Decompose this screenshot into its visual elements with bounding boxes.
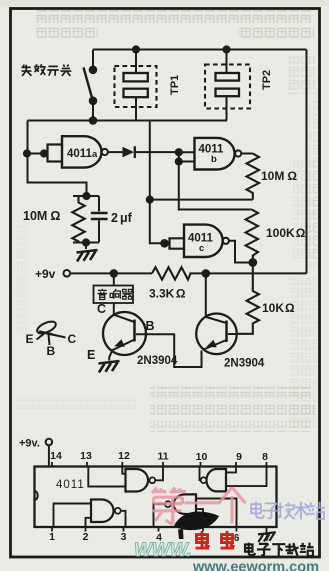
wire feedback vertical x150 [150, 121, 165, 244]
ground RC [77, 250, 98, 262]
transistor pinout sketch TO-92 [35, 319, 65, 345]
wire g3 in top pin9 [226, 467, 236, 473]
pin numbers top [50, 450, 268, 463]
gate G2 body [91, 500, 114, 523]
wire to gate a inputs [27, 153, 48, 155]
svg-text:10MΩ: 10MΩ [23, 209, 60, 223]
wire TP1 bottom lead [135, 97, 137, 120]
speaker annotation box [94, 286, 134, 304]
wire Q1 base to Q2 emitter [136, 334, 202, 367]
node RC top [83, 193, 89, 199]
node U1b input top [176, 149, 182, 155]
wire Q2 collector [205, 273, 207, 316]
wire g1 out pin11 [155, 467, 163, 481]
resistor R1 10M [247, 154, 259, 200]
svg-text:c: c [199, 243, 204, 254]
ground pin7 [258, 532, 276, 542]
wire top rail [93, 49, 307, 51]
gate U1c body [184, 225, 223, 257]
watermark black 电子下载站 [245, 543, 314, 557]
wire g3 out pin10 [200, 467, 201, 481]
gate U1b body [195, 138, 235, 170]
svg-text:C: C [97, 302, 106, 316]
watermark bug logo [174, 512, 219, 540]
svg-text:10: 10 [196, 451, 208, 463]
wire U1c out to node [229, 241, 250, 263]
label 音响器 speaker [97, 289, 132, 300]
watermark pink 第一个 [152, 487, 246, 524]
gate G4 body mirrored [173, 494, 196, 514]
node R2 bottom [249, 259, 256, 266]
svg-text:13: 13 [80, 450, 92, 462]
wire to ground [85, 243, 87, 250]
wire TP1 top lead [135, 50, 137, 74]
pin ticks top [52, 462, 267, 467]
svg-text:B: B [47, 344, 56, 358]
svg-text:3.3KΩ: 3.3KΩ [149, 287, 186, 301]
wire TP2 top lead [226, 50, 228, 74]
transistor Q2 [196, 314, 237, 355]
DIP package 4011 [35, 439, 277, 542]
gate U1a output bubble [102, 149, 108, 155]
wire g4 in bottom pin5 [196, 509, 203, 527]
wire g1 in bottom pin13 [88, 467, 125, 487]
gate U1a body [62, 136, 102, 167]
svg-text:7: 7 [265, 532, 271, 544]
svg-text:100KΩ: 100KΩ [266, 226, 306, 240]
svg-text:E: E [87, 348, 95, 362]
node RC bottom [83, 239, 89, 245]
ground Q1 emitter [99, 361, 120, 373]
node U1b input bottom [176, 158, 182, 164]
watermark lavender 电子技术站 [251, 502, 325, 520]
svg-text:E: E [26, 332, 34, 346]
IC body [35, 467, 277, 528]
svg-text:9: 9 [236, 451, 242, 463]
wire right bus [306, 50, 308, 274]
svg-text:2N3904: 2N3904 [224, 358, 265, 370]
resistor R2 100K [246, 210, 258, 263]
svg-text:TP1: TP1 [169, 75, 181, 95]
svg-text:3: 3 [121, 531, 127, 543]
wire horizontal y120 [28, 120, 228, 122]
capacitor C1 2uf [91, 196, 108, 243]
svg-text:10MΩ: 10MΩ [261, 169, 297, 183]
svg-text:C: C [68, 332, 77, 346]
wire g2 out pin3 [121, 511, 126, 527]
wire +9v rail [70, 272, 306, 274]
wire g2 in bottom pin2 [86, 518, 92, 527]
wire speaker drop [113, 273, 115, 314]
resistor R4 3.3K [152, 267, 191, 279]
svg-text:12: 12 [118, 450, 130, 462]
svg-text:2μf: 2μf [111, 211, 133, 225]
op-amp U1a gate inputs tie [48, 144, 63, 163]
label 失效开关 [22, 64, 72, 76]
svg-text:1: 1 [49, 531, 55, 543]
wire g4 in top pin6 [196, 499, 237, 528]
diode D1 [108, 146, 176, 158]
watermark red 虫虫 [196, 531, 235, 548]
wire TP2 bottom lead [226, 96, 228, 120]
svg-text:www.eeworm.com: www.eeworm.com [192, 560, 319, 571]
wire left bus to RC [28, 121, 87, 195]
transistor Q1 [103, 312, 146, 361]
node Q2 collector tap [203, 270, 210, 277]
node gate c input [161, 240, 168, 247]
switch S1 failure switch [84, 50, 97, 121]
resistor R5 10M timing [72, 196, 84, 243]
svg-text:TP2: TP2 [261, 70, 273, 90]
TP1 dashed enclosure [115, 66, 157, 107]
svg-text:WWW.: WWW. [134, 540, 192, 561]
wire g4 out pin4 [154, 504, 166, 527]
TP2 dashed enclosure [205, 65, 250, 109]
pin ticks bottom [52, 527, 267, 533]
wire pin14 lead [48, 445, 50, 466]
wire RC bottom bar [73, 242, 99, 244]
gate U1b output bubble [235, 150, 241, 156]
wire g3 in bottom pin8 [226, 467, 267, 487]
touch plate TP1 [124, 73, 148, 97]
svg-text:10KΩ: 10KΩ [262, 301, 295, 315]
node A2 [41, 150, 47, 156]
resistor R3 10K [236, 263, 259, 334]
svg-text:8: 8 [262, 451, 268, 463]
pin numbers bottom [49, 531, 271, 544]
svg-text:2N3904: 2N3904 [137, 355, 178, 367]
terminal +9v circle [64, 270, 71, 277]
wire U1b out [241, 153, 253, 155]
terminal +9v dip [46, 439, 53, 446]
touch plate TP2 [216, 73, 240, 96]
node TP1 top junction [133, 46, 139, 52]
svg-text:11: 11 [157, 451, 168, 463]
gate U1c output bubble [223, 238, 229, 244]
svg-text:b: b [211, 154, 217, 165]
wire U1b input stubs [179, 152, 195, 161]
node feedback [147, 197, 153, 203]
wire RC top bar [73, 195, 99, 197]
gate U1c input tie [170, 237, 185, 249]
svg-text:+9v: +9v [35, 267, 56, 281]
node junction switch-bottom [90, 117, 97, 124]
gate G3 body mirrored [207, 469, 227, 491]
wire g1 in top pin12 [122, 467, 125, 474]
wire U1b inputs to R2 [179, 162, 252, 210]
node A1 [24, 150, 30, 156]
node speaker tap [111, 270, 118, 277]
svg-text:2: 2 [83, 531, 89, 543]
svg-text:4011: 4011 [56, 479, 85, 491]
svg-text:+9v.: +9v. [19, 438, 40, 450]
notch [35, 491, 38, 501]
svg-text:4011a: 4011a [67, 148, 98, 160]
node TP2 top junction [223, 46, 229, 52]
svg-text:14: 14 [50, 450, 62, 462]
wire R1 to feedback [150, 199, 253, 201]
svg-text:B: B [146, 319, 155, 333]
gate G1 body [126, 469, 149, 492]
wire g2 in top pin1 [54, 504, 92, 528]
